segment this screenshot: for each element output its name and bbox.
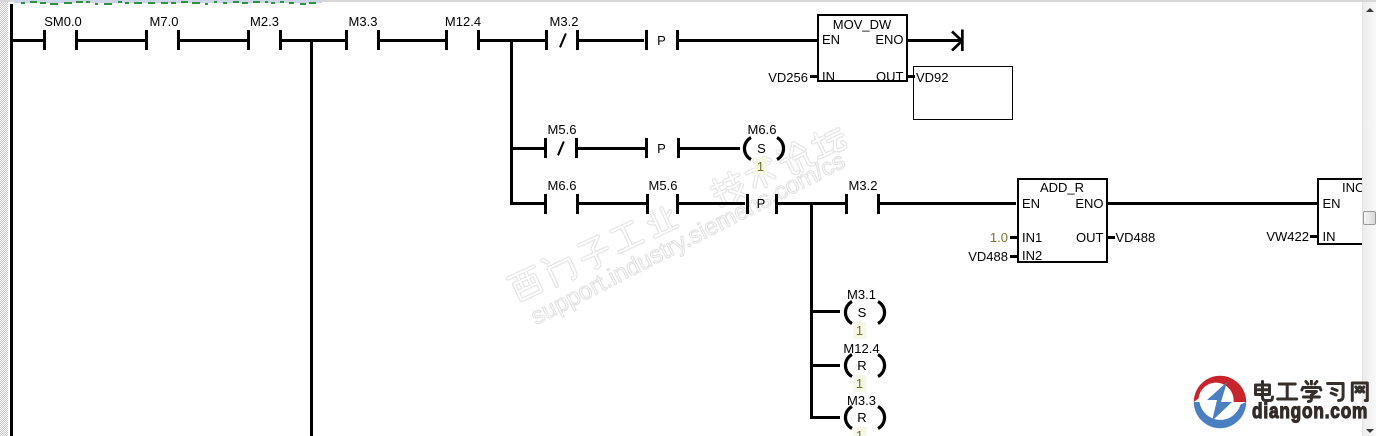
operand 1.0: [938, 231, 1008, 244]
box INC_W (clipped by scrollbar): [1317, 178, 1376, 245]
watermark line 1: xi men zi gong ye ji shu lun tan: [507, 123, 849, 304]
operand VD488 in: [938, 250, 1008, 263]
junction branch down at x=810: [810, 202, 813, 418]
wire: [577, 147, 644, 150]
pin tick IN1: [1010, 236, 1017, 239]
wire: [679, 202, 746, 205]
junction branch down at x=310: [310, 39, 313, 436]
wire: [510, 202, 544, 205]
contact P: [645, 138, 648, 158]
contact M3.2: [845, 194, 848, 214]
wire to coil M12.4: [810, 364, 840, 367]
pin tick IN: [810, 75, 817, 78]
scrollbar: [1362, 0, 1376, 436]
contact M6.6: [544, 194, 547, 214]
box ADD_R: [1017, 178, 1109, 264]
scrollbar thumb: [1363, 211, 1376, 225]
operand box (empty rectangle): [913, 66, 1013, 120]
pin tick IN2: [1010, 255, 1017, 258]
box MOV_DW: [817, 14, 909, 82]
left power rail: [10, 4, 13, 436]
contact M5.6 NC: [544, 138, 547, 158]
pin tick IN: [1310, 235, 1317, 238]
operand VW422: [1239, 230, 1309, 243]
coil M6.6 (S): [748, 123, 777, 136]
diangon.com logo: [1184, 367, 1186, 369]
contact M12.4: [445, 30, 448, 50]
contact M5.6: [646, 194, 649, 214]
contact M3.3: [345, 30, 348, 50]
svg-text:support.industry.siemens.com/c: support.industry.siemens.com/cs: [526, 147, 849, 330]
coil M3.3 (R): [847, 394, 876, 407]
watermark line 2: support.industry.siemens.com/cs: [526, 147, 849, 330]
pin tick OUT: [1108, 236, 1115, 239]
wire to coil: [679, 147, 740, 150]
coil M3.1 (S): [847, 288, 876, 301]
wire to coil M3.3: [810, 416, 840, 419]
wire: [578, 202, 646, 205]
operand VD92: [916, 71, 949, 84]
contact M3.2 NC: [545, 30, 548, 50]
wire to ADD_R: [880, 202, 1017, 205]
wire: [579, 39, 645, 42]
network title green text (clipped glyph bottoms): [16, 0, 336, 7]
top toolbar bottom edge: [0, 0, 1376, 2]
wire: [180, 39, 247, 42]
wire to coil M3.1: [810, 310, 840, 313]
wire from ENO: [908, 39, 961, 42]
wire: [78, 39, 145, 42]
contact M7.0: [145, 30, 148, 50]
wire to MOV_DW: [679, 39, 817, 42]
operand VD488 out: [1116, 231, 1156, 244]
scrollbar down arrow: [1366, 429, 1374, 433]
left gutter hatch: [0, 2, 8, 436]
wire: [510, 147, 544, 150]
contact SM0.0: [43, 30, 46, 50]
wire ENO to INC box: [1108, 202, 1317, 205]
logo text: dian gong xue xi wang (drawn strokes): [1252, 380, 1376, 404]
selected network title bar: [14, 0, 322, 3]
arrow to bar (rung continuation arrow): [945, 28, 967, 54]
wire: [282, 39, 345, 42]
logo icon: circle with red/blue arcs + lightning bolt: [1185, 368, 1257, 436]
coil M12.4 (R): [843, 342, 879, 355]
operand VD256: [738, 71, 808, 84]
wire: [379, 39, 445, 42]
contact M2.3: [247, 30, 250, 50]
scrollbar up arrow: [1366, 8, 1374, 12]
junction branch down at x=510: [510, 39, 513, 204]
contact P: [746, 194, 749, 214]
wire: [10, 39, 43, 42]
pin tick OUT: [908, 75, 915, 78]
wire: [479, 39, 545, 42]
contact P (positive edge): [645, 30, 648, 50]
wire: [778, 202, 845, 205]
logo text: diangon.com: [1252, 400, 1368, 424]
